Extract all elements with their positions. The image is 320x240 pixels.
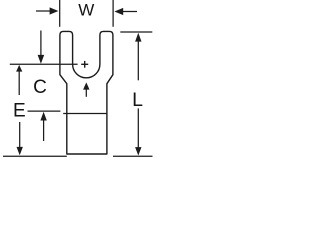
baseline left xyxy=(3,155,67,157)
svg-text:C: C xyxy=(33,77,47,98)
W extension line right xyxy=(112,0,114,27)
svg-text:W: W xyxy=(78,1,94,20)
centerline xyxy=(10,63,78,65)
E dimension top arrow xyxy=(18,71,20,96)
fork terminal body outline xyxy=(60,31,113,154)
baseline right xyxy=(113,155,153,157)
C dimension bottom arrow xyxy=(43,120,45,142)
C dimension top arrow xyxy=(40,31,42,57)
L dimension bottom arrow xyxy=(137,108,139,149)
W extension line left xyxy=(59,0,61,27)
W arrow right xyxy=(123,11,138,13)
L dimension top arrow xyxy=(137,40,139,80)
svg-text:L: L xyxy=(132,89,143,111)
slot-bottom arrow xyxy=(85,89,87,97)
C bottom extension line xyxy=(28,110,61,112)
L top extension line xyxy=(120,31,152,33)
W arrow left xyxy=(36,10,51,12)
barrel seam line xyxy=(63,113,107,115)
E dimension bottom arrow xyxy=(19,122,21,149)
svg-text:E: E xyxy=(13,100,26,121)
center mark + xyxy=(81,63,88,65)
